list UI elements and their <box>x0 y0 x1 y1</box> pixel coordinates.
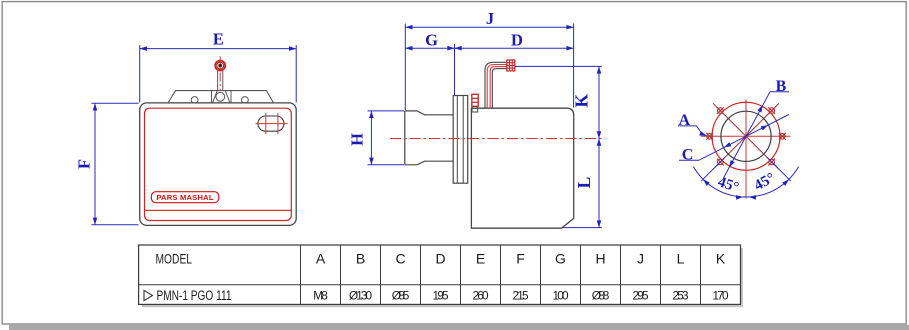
svg-text:K: K <box>572 94 592 108</box>
bolt hole right <box>779 133 786 140</box>
dimension K extension top <box>515 65 602 67</box>
fuel pipe red lines <box>487 65 507 109</box>
bolt circle <box>712 102 780 170</box>
dimension F line <box>94 103 96 225</box>
bracket hole left <box>191 97 198 104</box>
red horizontal centerline <box>701 135 791 137</box>
bolt stem <box>217 71 219 103</box>
svg-text:215: 215 <box>513 288 529 302</box>
svg-text:C: C <box>395 251 405 267</box>
angle extension line 225 <box>701 158 725 182</box>
body outer case <box>140 103 297 225</box>
svg-text:Ø88: Ø88 <box>592 288 610 302</box>
bolt head <box>215 61 225 71</box>
bolt hole left <box>706 133 713 140</box>
dimension E extension line left <box>139 45 141 103</box>
svg-text:D: D <box>435 251 445 267</box>
table shadow bottom <box>142 305 743 307</box>
fuel pipe outer <box>485 62 507 108</box>
inner bore circle <box>721 111 771 161</box>
svg-text:M8: M8 <box>313 288 328 302</box>
svg-text:F: F <box>516 251 525 267</box>
bolt hole top-left <box>717 107 724 114</box>
svg-text:L: L <box>677 251 685 267</box>
angle extension line 315 <box>767 158 791 182</box>
value row <box>313 288 729 302</box>
svg-text:H: H <box>595 251 605 267</box>
svg-text:Ø85: Ø85 <box>392 288 410 302</box>
svg-text:A: A <box>679 112 691 129</box>
table frame <box>139 245 741 304</box>
bracket hole right <box>242 97 249 104</box>
svg-text:G: G <box>555 251 566 267</box>
header letters <box>316 251 726 267</box>
burner housing <box>471 108 573 228</box>
body inner red panel <box>145 108 292 220</box>
page bottom shadow <box>9 325 909 330</box>
bolt hole bottom-left <box>717 159 724 166</box>
svg-text:PARS MASHAL: PARS MASHAL <box>156 193 213 202</box>
dimension J/D extension line right <box>573 24 575 108</box>
dimension E extension line right <box>295 45 297 103</box>
svg-text:G: G <box>425 31 438 50</box>
svg-text:253: 253 <box>673 288 689 302</box>
mounting flange <box>453 96 468 184</box>
svg-text:K: K <box>716 251 726 267</box>
pipe union fitting <box>507 60 515 71</box>
vertical centerline through bolt <box>219 57 221 168</box>
damper adjuster screw <box>472 94 478 106</box>
bolt hole bottom-right <box>768 159 775 166</box>
svg-text:L: L <box>574 177 594 189</box>
dimension H line <box>370 111 372 165</box>
header divider <box>139 284 741 286</box>
red diagonal centerline 45 <box>713 103 779 169</box>
table shadow right <box>741 248 743 305</box>
svg-text:F: F <box>75 159 94 169</box>
svg-text:E: E <box>476 251 485 267</box>
svg-text:J: J <box>486 9 494 28</box>
model row flag <box>144 290 153 300</box>
svg-text:E: E <box>213 30 224 49</box>
svg-text:J: J <box>637 251 644 267</box>
dimension E line <box>140 48 297 50</box>
mounting bracket <box>168 91 274 103</box>
angle dimension arc <box>693 167 798 197</box>
bolt hole top-right <box>768 107 775 114</box>
PARS MASHAL nameplate <box>151 192 218 203</box>
svg-text:170: 170 <box>713 288 729 302</box>
svg-text:100: 100 <box>553 288 569 302</box>
dimension L extension bottom <box>562 227 602 229</box>
svg-text:D: D <box>511 31 523 50</box>
dimension F extension line bottom <box>92 224 139 226</box>
dimension G/D extension line middle <box>454 44 456 95</box>
svg-text:195: 195 <box>433 288 449 302</box>
red diagonal centerline 135 <box>713 103 779 169</box>
bracket hole center <box>216 92 225 101</box>
column lines <box>301 245 701 304</box>
svg-text:B: B <box>356 251 365 267</box>
svg-text:Ø130: Ø130 <box>349 288 372 302</box>
dimension G line <box>405 47 454 49</box>
blast tube <box>405 111 453 165</box>
svg-text:PMN-1 PGO 111: PMN-1 PGO 111 <box>157 288 232 303</box>
dimension L line <box>598 139 600 228</box>
dimension J/G extension line left <box>404 24 406 111</box>
svg-text:MODEL: MODEL <box>156 252 193 267</box>
dimension K line <box>598 66 600 138</box>
horizontal centerline <box>390 138 602 140</box>
svg-text:A: A <box>316 251 326 267</box>
dimension F extension line top <box>92 102 139 104</box>
red divider line <box>145 209 292 211</box>
svg-text:H: H <box>348 133 367 146</box>
red vertical centerline <box>745 100 747 199</box>
svg-text:C: C <box>682 147 694 164</box>
sight glass obround <box>258 116 284 131</box>
dimension J line <box>405 26 573 28</box>
damper adjuster base <box>472 106 478 112</box>
svg-text:260: 260 <box>473 288 489 302</box>
dimension H extension lines <box>368 110 405 112</box>
dimension D line <box>455 47 574 49</box>
svg-text:295: 295 <box>633 288 649 302</box>
